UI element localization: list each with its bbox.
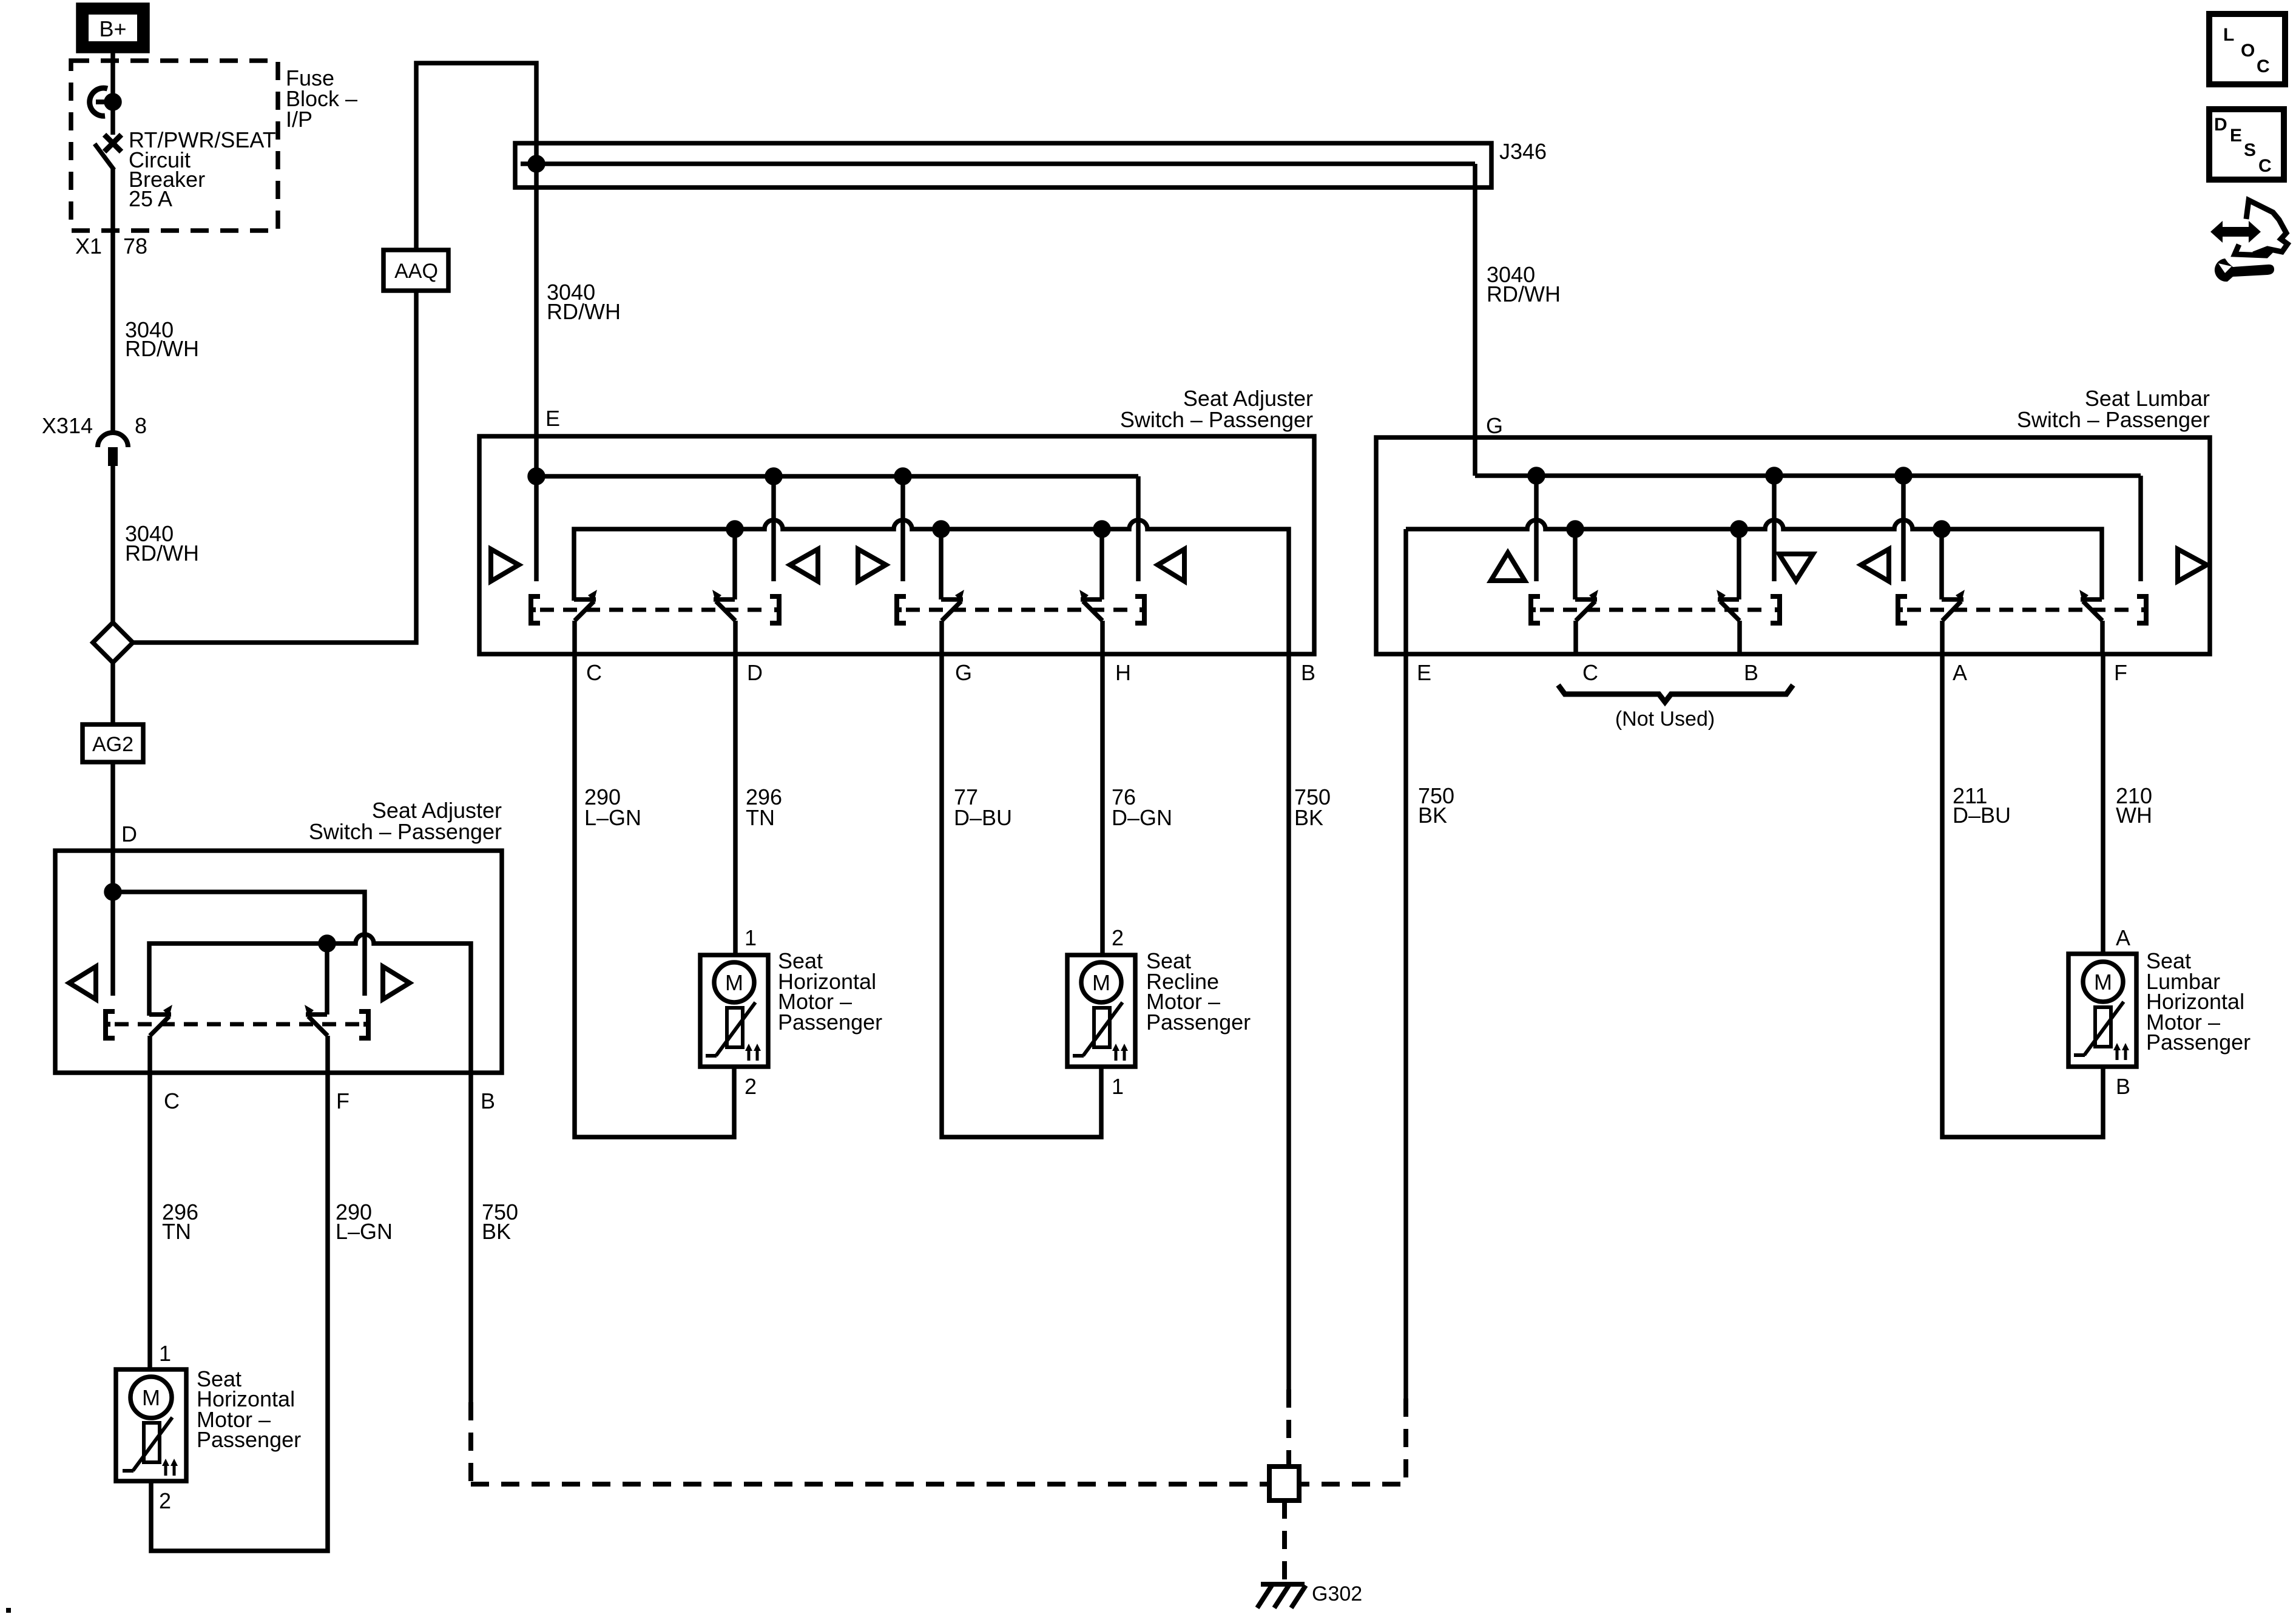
svg-text:RD/WH: RD/WH <box>125 336 199 361</box>
Seat Horizontal Motor - Passenger (lower left) <box>116 1369 186 1481</box>
Seat Horizontal Motor - Passenger (middle) <box>700 955 768 1067</box>
pole wire 2 <box>1772 476 1777 581</box>
pole wire G <box>900 476 905 581</box>
wire breaker to connector X1 pin 78 <box>110 169 115 433</box>
junction dot D feed <box>106 885 120 899</box>
switch contact C <box>574 590 597 654</box>
wire label 296 TN <box>746 785 782 830</box>
svg-text:2: 2 <box>1112 925 1124 950</box>
mechanical coupling left switch <box>531 596 779 623</box>
pole wire H <box>1136 476 1141 581</box>
Seat Recline Motor - Passenger <box>1067 955 1135 1067</box>
dashed ground jumper B adjuster <box>1286 1389 1291 1467</box>
svg-text:8: 8 <box>135 413 147 438</box>
junction dot contact C feed lumbar <box>1568 522 1582 536</box>
diamond splice node <box>93 623 133 663</box>
connector AG2 <box>83 724 143 762</box>
svg-text:2: 2 <box>159 1488 171 1513</box>
junction dot contact H feed <box>1095 522 1109 536</box>
switch contact C lumbar <box>1575 529 1598 654</box>
direction arrow down (lumbar) <box>1779 554 1813 581</box>
label Seat Adjuster Switch - Passenger <box>309 798 502 844</box>
svg-text:TN: TN <box>746 805 775 830</box>
switch contact C lower <box>149 1005 172 1073</box>
direction arrow right (lumbar) <box>2178 549 2207 581</box>
svg-text:E: E <box>545 406 560 431</box>
B+ battery terminal symbol <box>78 5 147 51</box>
wire C to motor loop <box>575 654 734 1137</box>
wire label 211 D-BU <box>1953 783 2011 828</box>
service action icon <box>2210 200 2288 282</box>
label Seat Lumbar Switch - Passenger <box>2017 386 2210 432</box>
svg-text:Switch – Passenger: Switch – Passenger <box>309 819 502 844</box>
dashed ground jumper E lumbar <box>1299 1399 1406 1484</box>
svg-text:B+: B+ <box>99 16 126 41</box>
svg-text:I/P: I/P <box>286 107 312 132</box>
wire label 3040 RD/WH <box>1487 262 1561 306</box>
internal feed bus of lumbar switch <box>1475 473 2141 478</box>
svg-text:E: E <box>1417 660 1431 685</box>
mechanical coupling right switch <box>897 596 1144 623</box>
not used brace <box>1558 685 1793 702</box>
wire label 210 WH <box>2116 783 2152 828</box>
internal feed bus of adjuster switch <box>536 474 1138 479</box>
svg-text:D–BU: D–BU <box>1953 803 2011 828</box>
label Seat Adjuster Switch - Passenger <box>1120 386 1313 432</box>
page artifact dot <box>6 1608 11 1613</box>
wire H to motor 2 <box>1100 654 1105 955</box>
junction dot F feed <box>320 937 334 950</box>
wire label 296 TN <box>162 1200 198 1244</box>
fuse block dashed enclosure <box>71 61 278 231</box>
switch contact F lumbar <box>2079 590 2102 654</box>
dashed ground jumper lower B <box>468 1402 473 1484</box>
svg-text:RD/WH: RD/WH <box>547 299 621 324</box>
junction dot contact A feed lumbar <box>1935 522 1948 536</box>
internal feed of lower switch <box>113 892 365 996</box>
svg-text:Passenger: Passenger <box>2146 1030 2250 1055</box>
svg-text:Switch – Passenger: Switch – Passenger <box>2017 407 2210 432</box>
svg-text:D: D <box>2214 115 2227 135</box>
svg-text:C: C <box>2258 156 2272 176</box>
wire label 3040 RD/WH <box>547 280 621 324</box>
switch contact D <box>712 529 735 654</box>
inner contact feed line with wire hops (lumbar) <box>1406 520 2102 599</box>
svg-text:Passenger: Passenger <box>197 1427 301 1452</box>
svg-text:X314: X314 <box>42 413 93 438</box>
dashed ground run to splice <box>471 1482 1269 1487</box>
inner contact feed line with wire hops <box>574 520 1289 654</box>
terminal labels C F B lower <box>164 1089 495 1113</box>
mechanical coupling lumbar left switch <box>1531 596 1780 623</box>
svg-text:G: G <box>955 660 972 685</box>
direction arrow right (recline) <box>858 549 886 581</box>
svg-text:E: E <box>2230 126 2242 146</box>
label Seat Horizontal Motor - Passenger <box>197 1366 301 1452</box>
direction arrow left (lumbar) <box>1861 549 1889 581</box>
svg-text:WH: WH <box>2116 803 2152 828</box>
pole wire E <box>534 476 539 581</box>
pole wire 4 <box>2138 476 2143 581</box>
pole wire 1 <box>1534 476 1539 581</box>
wire label 77 D-BU <box>954 785 1012 830</box>
wire B ground lead <box>1286 654 1291 1389</box>
svg-text:S: S <box>2244 140 2256 160</box>
wire E lumbar lead <box>1403 529 1408 1399</box>
wire label 290 L-GN <box>584 785 641 830</box>
LOC reference box <box>2209 14 2285 84</box>
svg-text:D: D <box>121 822 137 846</box>
svg-text:G: G <box>1486 413 1503 438</box>
svg-text:78: 78 <box>123 234 147 258</box>
wire label 750 BK <box>482 1200 518 1244</box>
mechanical coupling lower switch <box>106 1011 368 1038</box>
splice pack J346 <box>515 139 1547 187</box>
svg-text:25 A: 25 A <box>129 186 172 211</box>
label Seat Recline Motor - Passenger <box>1146 948 1251 1035</box>
switch contact H <box>1079 529 1102 654</box>
wire F to lumbar motor <box>2101 654 2105 954</box>
wire label 3040 RD/WH <box>125 317 199 361</box>
Seat Lumbar Horizontal Motor - Passenger <box>2068 954 2136 1067</box>
junction dot pole 2 <box>1768 469 1781 482</box>
svg-text:(Not Used): (Not Used) <box>1615 707 1715 731</box>
switch contact G <box>941 529 964 654</box>
junction dot contact G feed <box>934 522 948 536</box>
wire AG2 to lower switch terminal D <box>110 762 115 892</box>
wire F lower to motor loop <box>151 1073 328 1551</box>
direction arrow left (recline) <box>1158 549 1184 581</box>
circuit breaker CB (RT/PWR/SEAT 25 A) <box>90 88 121 170</box>
inner contact feed line with wire hop <box>149 934 471 1073</box>
svg-text:Passenger: Passenger <box>1146 1010 1251 1035</box>
svg-text:C: C <box>164 1089 180 1113</box>
svg-text:RD/WH: RD/WH <box>125 541 199 565</box>
switch contact A lumbar <box>1942 529 1965 654</box>
mechanical coupling lumbar right switch <box>1898 596 2146 623</box>
svg-text:1: 1 <box>1112 1074 1124 1099</box>
ground symbol G302 <box>1257 1584 1306 1608</box>
wire J346 to seat adjuster switch E <box>534 164 539 476</box>
wire X314 to diamond node <box>110 466 115 623</box>
wire diamond to AAQ branch <box>133 291 416 643</box>
junction dot E <box>530 470 543 483</box>
svg-text:D–BU: D–BU <box>954 805 1012 830</box>
pole wire left <box>110 892 115 996</box>
svg-text:M: M <box>142 1385 160 1410</box>
svg-text:BK: BK <box>1418 803 1447 828</box>
wire AAQ up and over to splice pack feed <box>416 63 536 250</box>
wire G to motor loop <box>942 654 1101 1137</box>
svg-text:RD/WH: RD/WH <box>1487 282 1561 306</box>
junction dot D pole <box>767 470 780 483</box>
direction arrow left (lower switch) <box>69 967 96 999</box>
svg-text:BK: BK <box>482 1219 511 1244</box>
direction arrow right (forward) <box>491 549 519 581</box>
svg-text:M: M <box>1092 970 1110 995</box>
direction arrow left (rearward) <box>790 549 818 581</box>
svg-text:BK: BK <box>1294 805 1323 830</box>
svg-text:D: D <box>747 660 763 685</box>
DESC reference box <box>2209 109 2284 180</box>
svg-text:M: M <box>2094 970 2112 994</box>
label Seat Lumbar Horizontal Motor - Passenger <box>2146 948 2250 1055</box>
svg-text:J346: J346 <box>1499 139 1547 164</box>
svg-text:F: F <box>2114 660 2127 685</box>
svg-text:C: C <box>2257 56 2270 76</box>
dashed ground drop to G302 <box>1282 1501 1287 1582</box>
junction dot contact B feed lumbar <box>1732 522 1746 536</box>
switch contact F lower <box>305 944 328 1073</box>
connector X314 pin 8 <box>98 433 128 466</box>
wire B lower ground lead <box>468 1073 473 1402</box>
label RT/PWR/SEAT Circuit Breaker 25 A <box>129 127 276 211</box>
direction arrow up (lumbar) <box>1491 553 1525 581</box>
terminal labels E C B A F lumbar <box>1417 660 2127 685</box>
switch contact B lumbar <box>1717 529 1740 654</box>
svg-text:B: B <box>2116 1074 2130 1099</box>
Seat Adjuster Switch - Passenger (upper) box <box>479 436 1314 654</box>
svg-text:B: B <box>1301 660 1315 685</box>
wire B+ to circuit breaker <box>110 51 115 135</box>
wire label 76 D-GN <box>1112 785 1172 830</box>
svg-text:AAQ: AAQ <box>394 260 438 283</box>
direction arrow right (lower switch) <box>383 967 410 999</box>
svg-text:1: 1 <box>159 1341 171 1366</box>
svg-text:C: C <box>586 660 602 685</box>
junction dot pole 1 <box>1530 469 1543 482</box>
svg-text:L–GN: L–GN <box>584 805 641 830</box>
wire label 3040 RD/WH <box>125 521 199 565</box>
ground splice box <box>1269 1467 1299 1501</box>
svg-text:1: 1 <box>745 925 757 950</box>
wire label 750 BK lumbar <box>1418 783 1454 828</box>
Seat Lumbar Switch - Passenger box <box>1376 437 2210 654</box>
label Fuse Block - I/P <box>286 66 357 132</box>
svg-text:H: H <box>1115 660 1131 685</box>
connector AAQ <box>383 250 448 291</box>
svg-text:G302: G302 <box>1312 1582 1362 1605</box>
svg-text:C: C <box>1582 660 1598 685</box>
wire D to motor 1 <box>733 654 738 955</box>
svg-text:Passenger: Passenger <box>778 1010 882 1035</box>
svg-text:O: O <box>2241 41 2255 61</box>
Seat Adjuster Switch - Passenger (lower left) box <box>55 851 502 1073</box>
svg-text:D–GN: D–GN <box>1112 805 1172 830</box>
svg-text:A: A <box>1953 660 1967 685</box>
svg-text:TN: TN <box>162 1219 191 1244</box>
svg-text:L: L <box>2223 25 2234 45</box>
wire A to motor loop <box>1942 654 2103 1137</box>
wire J346 to seat lumbar switch G <box>1473 164 1477 476</box>
svg-text:A: A <box>2116 925 2130 950</box>
junction dot contact C feed <box>728 522 741 536</box>
svg-text:L–GN: L–GN <box>336 1219 393 1244</box>
svg-text:Switch – Passenger: Switch – Passenger <box>1120 407 1313 432</box>
pole wire 3 <box>1901 476 1906 581</box>
svg-text:2: 2 <box>745 1074 757 1099</box>
pole wire D <box>771 476 776 581</box>
wire label 290 L-GN <box>336 1200 393 1244</box>
svg-text:M: M <box>725 970 743 995</box>
wire diamond to AG2 <box>110 663 115 724</box>
svg-text:B: B <box>1744 660 1758 685</box>
wire C lower to motor 3 <box>147 1073 152 1369</box>
label Seat Horizontal Motor - Passenger <box>778 948 882 1035</box>
junction dot pole 3 <box>1897 469 1910 482</box>
label X314 8 <box>42 413 147 438</box>
svg-text:F: F <box>336 1089 349 1113</box>
wire label 750 BK <box>1294 785 1331 830</box>
svg-text:AG2: AG2 <box>92 733 133 756</box>
svg-text:X1: X1 <box>75 234 102 258</box>
svg-text:B: B <box>481 1089 495 1113</box>
label X1 78 <box>75 234 147 258</box>
terminal labels C D G H B <box>586 660 1315 685</box>
junction dot G pole <box>896 470 910 483</box>
